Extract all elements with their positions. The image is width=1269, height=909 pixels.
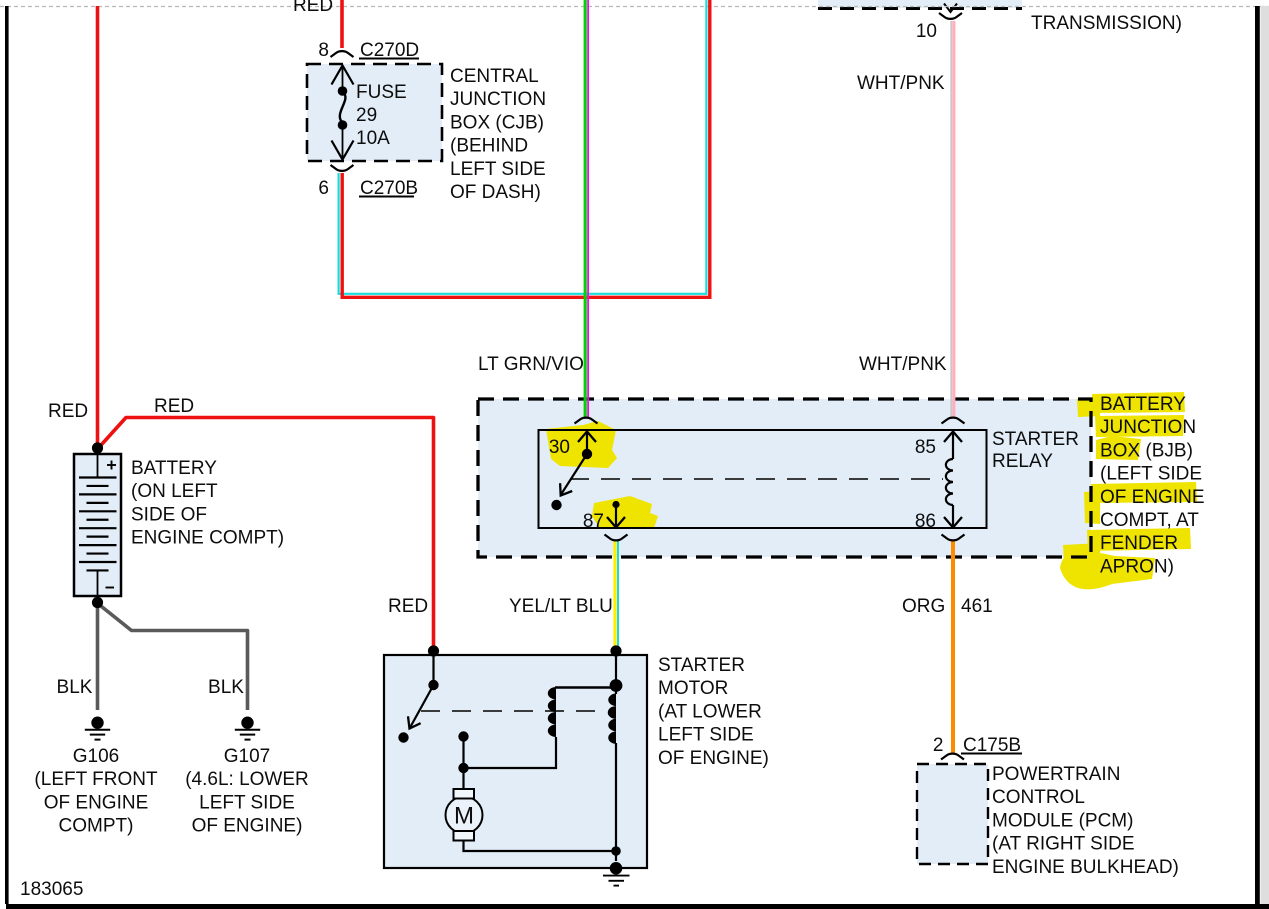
svg-text:G106: G106 <box>73 746 119 767</box>
svg-text:BLK: BLK <box>208 677 244 698</box>
svg-text:BATTERY: BATTERY <box>131 458 217 479</box>
svg-text:6: 6 <box>318 178 329 199</box>
svg-text:OF ENGINE): OF ENGINE) <box>192 816 303 837</box>
svg-text:(ON LEFT: (ON LEFT <box>131 481 218 502</box>
svg-text:LEFT SIDE: LEFT SIDE <box>450 159 546 180</box>
svg-text:183065: 183065 <box>20 879 83 900</box>
svg-text:10A: 10A <box>356 128 390 149</box>
svg-text:2: 2 <box>933 735 944 756</box>
svg-text:(AT LOWER: (AT LOWER <box>658 701 762 722</box>
svg-text:(LEFT FRONT: (LEFT FRONT <box>34 769 158 790</box>
svg-text:OF ENGINE: OF ENGINE <box>44 792 149 813</box>
svg-text:TRANSMISSION): TRANSMISSION) <box>1031 13 1182 34</box>
svg-text:86: 86 <box>915 511 936 532</box>
svg-text:(LEFT SIDE: (LEFT SIDE <box>1100 464 1202 485</box>
svg-text:LT GRN/VIO: LT GRN/VIO <box>478 354 584 375</box>
svg-text:WHT/PNK: WHT/PNK <box>859 354 947 375</box>
svg-text:10: 10 <box>916 21 937 42</box>
svg-text:BOX (CJB): BOX (CJB) <box>450 112 544 133</box>
svg-text:ENGINE COMPT): ENGINE COMPT) <box>131 528 284 549</box>
svg-text:OF DASH): OF DASH) <box>450 182 541 203</box>
svg-text:STARTER: STARTER <box>658 655 745 676</box>
svg-text:CENTRAL: CENTRAL <box>450 66 539 87</box>
svg-text:WHT/PNK: WHT/PNK <box>857 73 945 94</box>
svg-text:MOTOR: MOTOR <box>658 678 728 699</box>
svg-text:OF ENGINE: OF ENGINE <box>1100 487 1205 508</box>
svg-text:FENDER: FENDER <box>1100 533 1178 554</box>
svg-text:RED: RED <box>388 596 428 617</box>
svg-text:8: 8 <box>318 40 329 61</box>
svg-text:ENGINE BULKHEAD): ENGINE BULKHEAD) <box>992 857 1179 878</box>
svg-text:RELAY: RELAY <box>992 451 1053 472</box>
svg-text:85: 85 <box>915 437 936 458</box>
svg-text:LEFT SIDE: LEFT SIDE <box>658 725 754 746</box>
svg-text:RED: RED <box>48 401 88 422</box>
svg-text:29: 29 <box>356 105 377 126</box>
svg-text:RED: RED <box>293 0 333 16</box>
svg-text:BOX (BJB): BOX (BJB) <box>1100 440 1193 461</box>
svg-text:87: 87 <box>583 511 604 532</box>
svg-text:461: 461 <box>961 596 993 617</box>
svg-text:APRON): APRON) <box>1100 556 1174 577</box>
svg-text:G107: G107 <box>224 746 270 767</box>
svg-text:(AT RIGHT SIDE: (AT RIGHT SIDE <box>992 834 1135 855</box>
svg-text:YEL/LT BLU: YEL/LT BLU <box>509 596 613 617</box>
svg-text:STARTER: STARTER <box>992 429 1079 450</box>
svg-text:(BEHIND: (BEHIND <box>450 136 528 157</box>
svg-text:JUNCTION: JUNCTION <box>450 89 546 110</box>
svg-text:ORG: ORG <box>902 596 945 617</box>
svg-text:SIDE OF: SIDE OF <box>131 504 207 525</box>
svg-text:COMPT): COMPT) <box>59 816 134 837</box>
svg-text:M: M <box>454 803 474 830</box>
svg-text:CONTROL: CONTROL <box>992 787 1085 808</box>
svg-text:MODULE (PCM): MODULE (PCM) <box>992 810 1133 831</box>
svg-text:POWERTRAIN: POWERTRAIN <box>992 764 1120 785</box>
svg-text:(4.6L: LOWER: (4.6L: LOWER <box>185 769 309 790</box>
svg-text:FUSE: FUSE <box>356 82 407 103</box>
svg-text:OF ENGINE): OF ENGINE) <box>658 748 769 769</box>
svg-text:RED: RED <box>154 396 194 417</box>
svg-text:LEFT SIDE: LEFT SIDE <box>199 792 295 813</box>
svg-text:COMPT, AT: COMPT, AT <box>1100 510 1199 531</box>
svg-text:BATTERY: BATTERY <box>1100 394 1186 415</box>
svg-text:30: 30 <box>549 437 570 458</box>
svg-text:BLK: BLK <box>57 677 93 698</box>
svg-text:JUNCTION: JUNCTION <box>1100 417 1196 438</box>
